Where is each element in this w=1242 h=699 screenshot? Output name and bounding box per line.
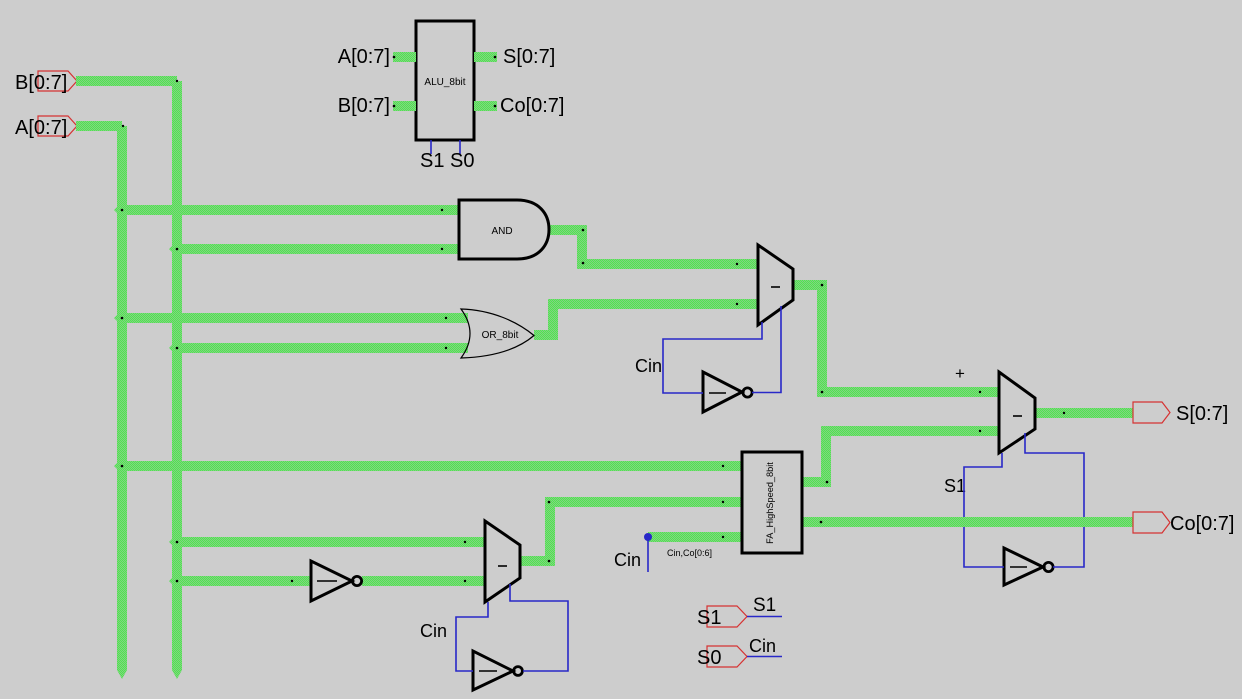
wire FA output2 to Co port over blue — [958, 517, 1090, 527]
wire INV2 output to mux2 (blue) — [1025, 433, 1084, 567]
wire INV4 output to mux3 (blue) — [510, 584, 568, 671]
node junction bulges — [114, 202, 185, 589]
wire B to mux3 input1 — [177, 537, 485, 547]
port B[0:7] input — [38, 71, 77, 91]
wire OR output to mux1 input2 — [534, 304, 758, 335]
wire ALU pin A stub — [393, 52, 416, 62]
port S0 input — [707, 646, 747, 667]
wire FA output2 to Co port — [802, 517, 1133, 527]
wire FA output1 to mux2 input2 — [802, 431, 999, 482]
wire ALU pin B stub — [393, 101, 416, 111]
node junction dots — [121, 56, 1066, 583]
gate OR_8bit — [461, 309, 534, 358]
gate AND — [459, 200, 549, 259]
port S1 input — [707, 606, 747, 627]
svg-text:S1 S0: S1 S0 — [420, 150, 474, 172]
wire ALU S1 pin — [430, 140, 432, 154]
svg-text:A[0:7]: A[0:7] — [338, 46, 390, 68]
wire A bus vertical — [117, 126, 127, 670]
inverter INV4 (mux3 select) — [473, 651, 513, 690]
wire ALU pin Co stub — [474, 101, 497, 111]
inverter INV1 (mux1 select) — [703, 372, 742, 412]
svg-text:S0: S0 — [697, 647, 721, 669]
wire A to AND input1 — [122, 205, 459, 215]
inverter INV3 (in A-B path) — [311, 561, 352, 601]
svg-text:A[0:7]: A[0:7] — [15, 117, 67, 139]
svg-text:S1: S1 — [944, 476, 966, 496]
wire B bus vertical — [172, 81, 182, 670]
wire B to inverter INV3 — [177, 576, 311, 586]
svg-text:Cin: Cin — [749, 636, 776, 656]
wire INV3 output to mux3 input2 — [362, 576, 485, 586]
wire B to AND input2 — [177, 244, 459, 254]
wire mux1 output to mux2 input1 — [793, 285, 999, 392]
wire mux2 select S1 (blue) — [964, 453, 1004, 567]
wire mux3 select Cin (blue) — [456, 602, 488, 671]
svg-text:S[0:7]: S[0:7] — [1176, 403, 1228, 425]
op-amp U1 ALU_8bit block — [416, 21, 474, 140]
svg-text:Cin: Cin — [614, 550, 641, 570]
svg-text:AND: AND — [491, 226, 512, 237]
port Co[0:7] output — [1133, 512, 1170, 533]
svg-text:Cin,Co[0:6]: Cin,Co[0:6] — [667, 548, 712, 558]
wire Cin stub (blue) — [647, 537, 649, 572]
svg-text:B[0:7]: B[0:7] — [338, 95, 390, 117]
svg-text:B[0:7]: B[0:7] — [15, 72, 67, 94]
svg-text:Cin: Cin — [420, 621, 447, 641]
mux M1 (middle) — [758, 245, 793, 325]
wire mux1 select Cin (blue) — [663, 322, 762, 393]
node Cin source junction (blue dot) — [644, 533, 652, 541]
svg-text:+: + — [955, 364, 965, 383]
wire ALU S0 pin — [459, 140, 461, 154]
wire mux2 output to S port — [1035, 408, 1133, 418]
wire B to OR input2 — [177, 343, 468, 353]
svg-text:OR_8bit: OR_8bit — [482, 330, 519, 341]
inverter INV2 (mux2 select) — [1004, 548, 1043, 585]
svg-text:Cin: Cin — [635, 356, 662, 376]
wire A to OR input1 — [122, 313, 468, 323]
port S[0:7] output — [1133, 402, 1170, 423]
svg-text:Co[0:7]: Co[0:7] — [500, 95, 564, 117]
wire S1 (blue) — [747, 616, 782, 618]
wire INV1 output to mux1 (blue) — [752, 306, 781, 393]
mux M3 (bottom) — [485, 521, 520, 602]
svg-text:ALU_8bit: ALU_8bit — [424, 77, 465, 88]
svg-text:Co[0:7]: Co[0:7] — [1170, 513, 1234, 535]
svg-text:S1: S1 — [753, 595, 776, 616]
wire ALU pin S stub — [474, 52, 497, 62]
wire A port to bus — [76, 121, 122, 131]
wire S0 (blue) — [747, 656, 782, 658]
wire B port to bus — [76, 76, 177, 86]
svg-text:S1: S1 — [697, 607, 721, 629]
wire AND output to mux1 input1 — [549, 230, 758, 264]
component FA_HighSpeed_8bit block — [742, 452, 802, 553]
port A[0:7] input — [38, 116, 77, 136]
wire mux3 output to FA input2 — [520, 502, 742, 561]
svg-text:S[0:7]: S[0:7] — [503, 46, 555, 68]
wire Cin to FA input3 — [648, 532, 742, 542]
svg-text:FA_HighSpeed_8bit: FA_HighSpeed_8bit — [765, 462, 775, 544]
wire A to FA input1 — [122, 461, 742, 471]
mux M2 (right) — [999, 372, 1035, 453]
